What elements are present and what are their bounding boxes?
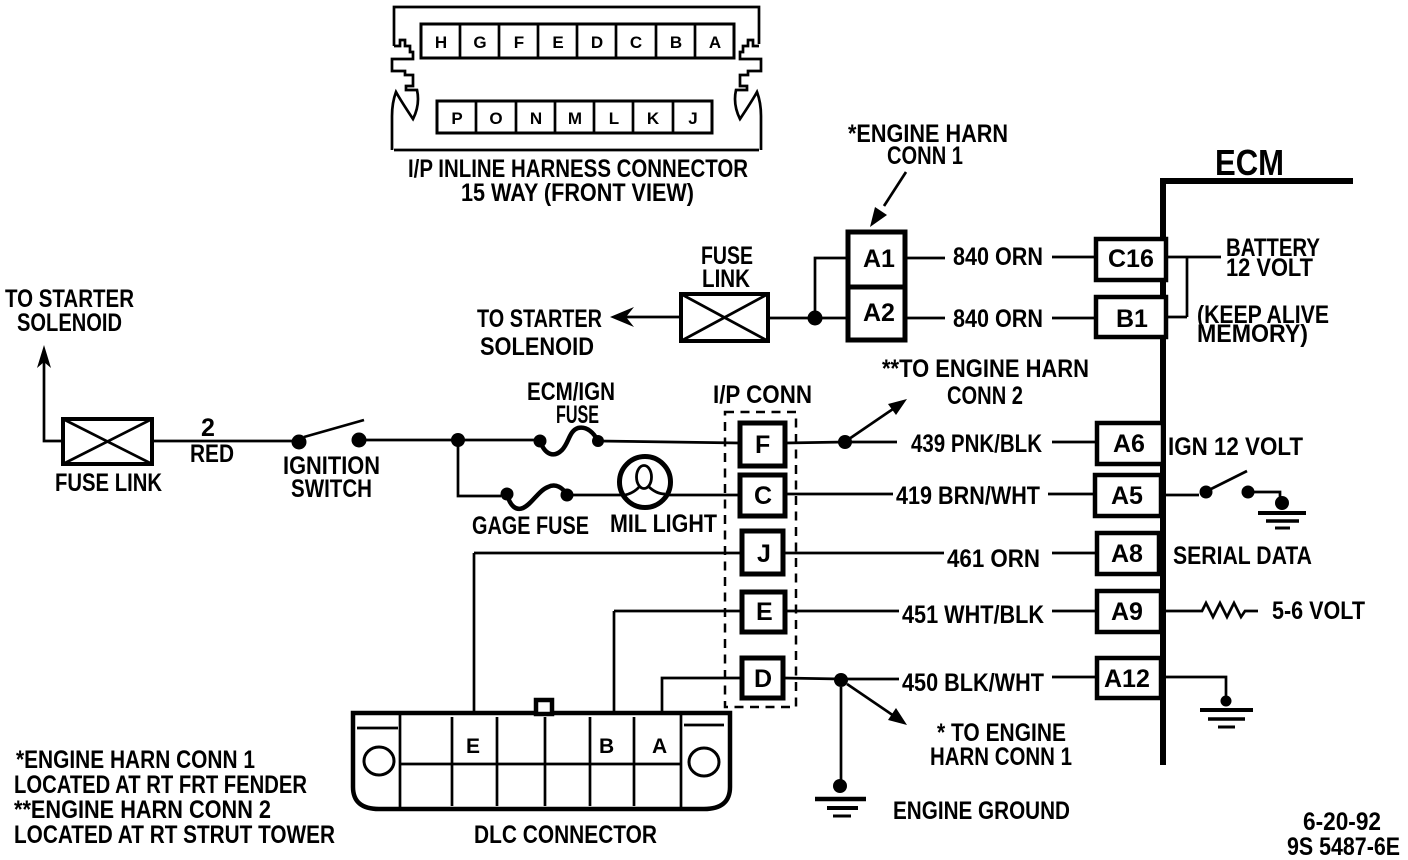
wire fuse to pin F — [598, 441, 740, 443]
wire A2 to B1 : 840 ORN — [905, 317, 1097, 320]
ignition switch S1 — [292, 435, 307, 450]
fuse F2 GAGE — [501, 488, 514, 501]
arrow to engine harn conn 2 — [849, 409, 893, 439]
svg-text:A9: A9 — [1111, 598, 1143, 626]
svg-text:LOCATED AT RT FRT FENDER: LOCATED AT RT FRT FENDER — [14, 771, 307, 799]
wire 419 BRN/WHT — [785, 493, 1095, 496]
svg-text:12 VOLT: 12 VOLT — [1226, 254, 1313, 282]
svg-text:419 BRN/WHT: 419 BRN/WHT — [896, 482, 1040, 510]
resistor at A9 — [1161, 603, 1258, 617]
svg-text:MIL LIGHT: MIL LIGHT — [610, 510, 717, 538]
connector bottom pin row P..J — [437, 101, 712, 133]
wire A1 to C16 : 840 ORN — [905, 257, 1097, 258]
svg-text:B: B — [599, 735, 614, 758]
svg-text:K: K — [647, 109, 660, 128]
DLC connector shell — [353, 713, 730, 809]
ECM pin A9 — [1097, 591, 1161, 632]
svg-text:B1: B1 — [1116, 305, 1148, 333]
svg-text:6-20-92: 6-20-92 — [1303, 808, 1381, 836]
svg-text:J: J — [757, 540, 771, 568]
connector top pin row H..A — [421, 24, 734, 58]
I/P CONN dashed outline — [725, 412, 796, 707]
svg-text:2: 2 — [201, 414, 215, 442]
svg-text:A12: A12 — [1104, 665, 1150, 693]
svg-text:5-6 VOLT: 5-6 VOLT — [1272, 597, 1365, 625]
svg-text:TO STARTER: TO STARTER — [477, 305, 602, 333]
svg-text:CONN 1: CONN 1 — [887, 142, 963, 170]
svg-text:840 ORN: 840 ORN — [953, 305, 1043, 333]
arrow to A1 — [884, 172, 906, 206]
keep-alive bracket — [1166, 257, 1221, 317]
ECM pin A12 — [1097, 658, 1161, 698]
svg-text:D: D — [591, 33, 603, 52]
svg-text:MEMORY): MEMORY) — [1197, 320, 1308, 348]
svg-text:O: O — [489, 109, 502, 128]
ECM pin B1 — [1096, 297, 1166, 337]
svg-text:*ENGINE HARN CONN 1: *ENGINE HARN CONN 1 — [16, 746, 255, 774]
svg-text:A: A — [709, 33, 721, 52]
ground at A12 — [1161, 677, 1226, 697]
svg-text:451 WHT/BLK: 451 WHT/BLK — [902, 601, 1044, 629]
wire 461 ORN — [474, 552, 1097, 555]
connector pin A1 — [848, 232, 905, 287]
svg-text:GAGE FUSE: GAGE FUSE — [472, 512, 589, 540]
junction node — [451, 433, 465, 447]
pin F — [740, 423, 785, 466]
svg-text:E: E — [466, 735, 480, 758]
svg-text:N: N — [530, 109, 542, 128]
svg-text:SOLENOID: SOLENOID — [17, 309, 122, 337]
DLC circle left — [364, 747, 394, 775]
arrow to engine harn conn 1 — [847, 684, 894, 716]
svg-text:B: B — [670, 33, 682, 52]
svg-text:ENGINE GROUND: ENGINE GROUND — [893, 797, 1070, 825]
engine ground wire — [840, 687, 843, 783]
fuse link FL1 — [63, 419, 152, 464]
svg-text:RED: RED — [190, 440, 234, 468]
wire to starter solenoid arrow — [622, 316, 681, 319]
svg-text:D: D — [754, 665, 772, 693]
ECM top line — [1163, 178, 1353, 184]
svg-text:A: A — [652, 735, 667, 758]
svg-text:J: J — [688, 109, 697, 128]
fuse link FL2 — [681, 294, 768, 341]
svg-text:SERIAL DATA: SERIAL DATA — [1173, 542, 1312, 570]
arrow up to starter solenoid — [44, 362, 63, 441]
DLC circle right — [689, 748, 719, 776]
pin E — [742, 592, 785, 632]
svg-text:G: G — [473, 33, 486, 52]
pin J — [742, 531, 783, 574]
svg-text:SOLENOID: SOLENOID — [480, 333, 594, 361]
ECM pin A8 — [1097, 533, 1159, 574]
svg-text:LINK: LINK — [702, 265, 750, 293]
svg-text:C: C — [754, 482, 772, 510]
wire fuse link to A2 with branch to A1 — [768, 258, 848, 318]
junction node — [808, 311, 823, 326]
ECM pin A5 — [1095, 475, 1161, 516]
svg-text:P: P — [451, 109, 462, 128]
ground symbol engine ground — [815, 797, 866, 802]
ECM pin A6 — [1097, 423, 1163, 464]
svg-text:C: C — [630, 33, 642, 52]
branch to gage fuse — [458, 440, 501, 496]
fuse F1 ECM/IGN — [534, 435, 547, 448]
wire gage fuse to pin C — [567, 494, 740, 497]
DLC grid — [400, 715, 681, 807]
svg-text:461 ORN: 461 ORN — [947, 545, 1040, 573]
svg-text:FUSE LINK: FUSE LINK — [55, 469, 162, 497]
wire switch to junction — [358, 439, 540, 442]
svg-text:E: E — [756, 598, 773, 626]
svg-text:A8: A8 — [1111, 540, 1143, 568]
I/P inline harness connector J1 outer shell — [392, 7, 761, 150]
wire 439 PNK/BLK — [785, 442, 1097, 443]
svg-text:FUSE: FUSE — [556, 401, 599, 429]
svg-text:C16: C16 — [1108, 245, 1154, 273]
svg-text:HARN CONN 1: HARN CONN 1 — [930, 743, 1072, 771]
wire 451 WHT/BLK — [614, 610, 1097, 613]
svg-text:A2: A2 — [863, 299, 895, 327]
wire 450 BLK/WHT — [783, 677, 1097, 679]
svg-text:LOCATED AT RT STRUT TOWER: LOCATED AT RT STRUT TOWER — [14, 821, 335, 849]
svg-text:L: L — [609, 109, 619, 128]
svg-text:450 BLK/WHT: 450 BLK/WHT — [902, 669, 1044, 697]
svg-text:A5: A5 — [1111, 482, 1143, 510]
svg-text:ECM: ECM — [1215, 142, 1284, 183]
wire D to DLC A — [662, 678, 742, 713]
wire J to DLC E — [473, 553, 476, 713]
svg-text:H: H — [435, 33, 447, 52]
svg-text:IGN 12 VOLT: IGN 12 VOLT — [1168, 433, 1303, 461]
svg-text:A1: A1 — [863, 245, 895, 273]
pin C — [740, 475, 785, 516]
svg-text:CONN 2: CONN 2 — [947, 382, 1023, 410]
svg-text:E: E — [552, 33, 563, 52]
svg-text:M: M — [568, 109, 582, 128]
DLC tab — [536, 700, 552, 714]
svg-text:I/P CONN: I/P CONN — [713, 381, 812, 409]
MIL light DS1 — [620, 457, 671, 508]
svg-text:A6: A6 — [1113, 430, 1145, 458]
svg-text:15 WAY (FRONT VIEW): 15 WAY (FRONT VIEW) — [461, 179, 694, 207]
svg-text:**ENGINE HARN CONN 2: **ENGINE HARN CONN 2 — [14, 796, 271, 824]
ECM vertical line — [1160, 178, 1166, 765]
ground at A5 switch — [1258, 511, 1306, 515]
svg-text:439 PNK/BLK: 439 PNK/BLK — [911, 430, 1042, 458]
svg-text:**TO ENGINE HARN: **TO ENGINE HARN — [882, 355, 1089, 383]
svg-text:840 ORN: 840 ORN — [953, 243, 1043, 271]
connector pin A2 — [848, 287, 905, 340]
svg-text:9S 5487-6E: 9S 5487-6E — [1287, 833, 1400, 860]
svg-text:DLC CONNECTOR: DLC CONNECTOR — [474, 821, 657, 849]
ECM pin C16 — [1096, 239, 1166, 280]
svg-text:F: F — [514, 33, 524, 52]
pin D — [742, 658, 783, 698]
switch at A5 — [1161, 494, 1199, 497]
svg-text:F: F — [755, 431, 770, 459]
svg-text:SWITCH: SWITCH — [291, 475, 372, 503]
wire 2 RED — [152, 440, 298, 443]
wire E to DLC B — [613, 611, 616, 713]
